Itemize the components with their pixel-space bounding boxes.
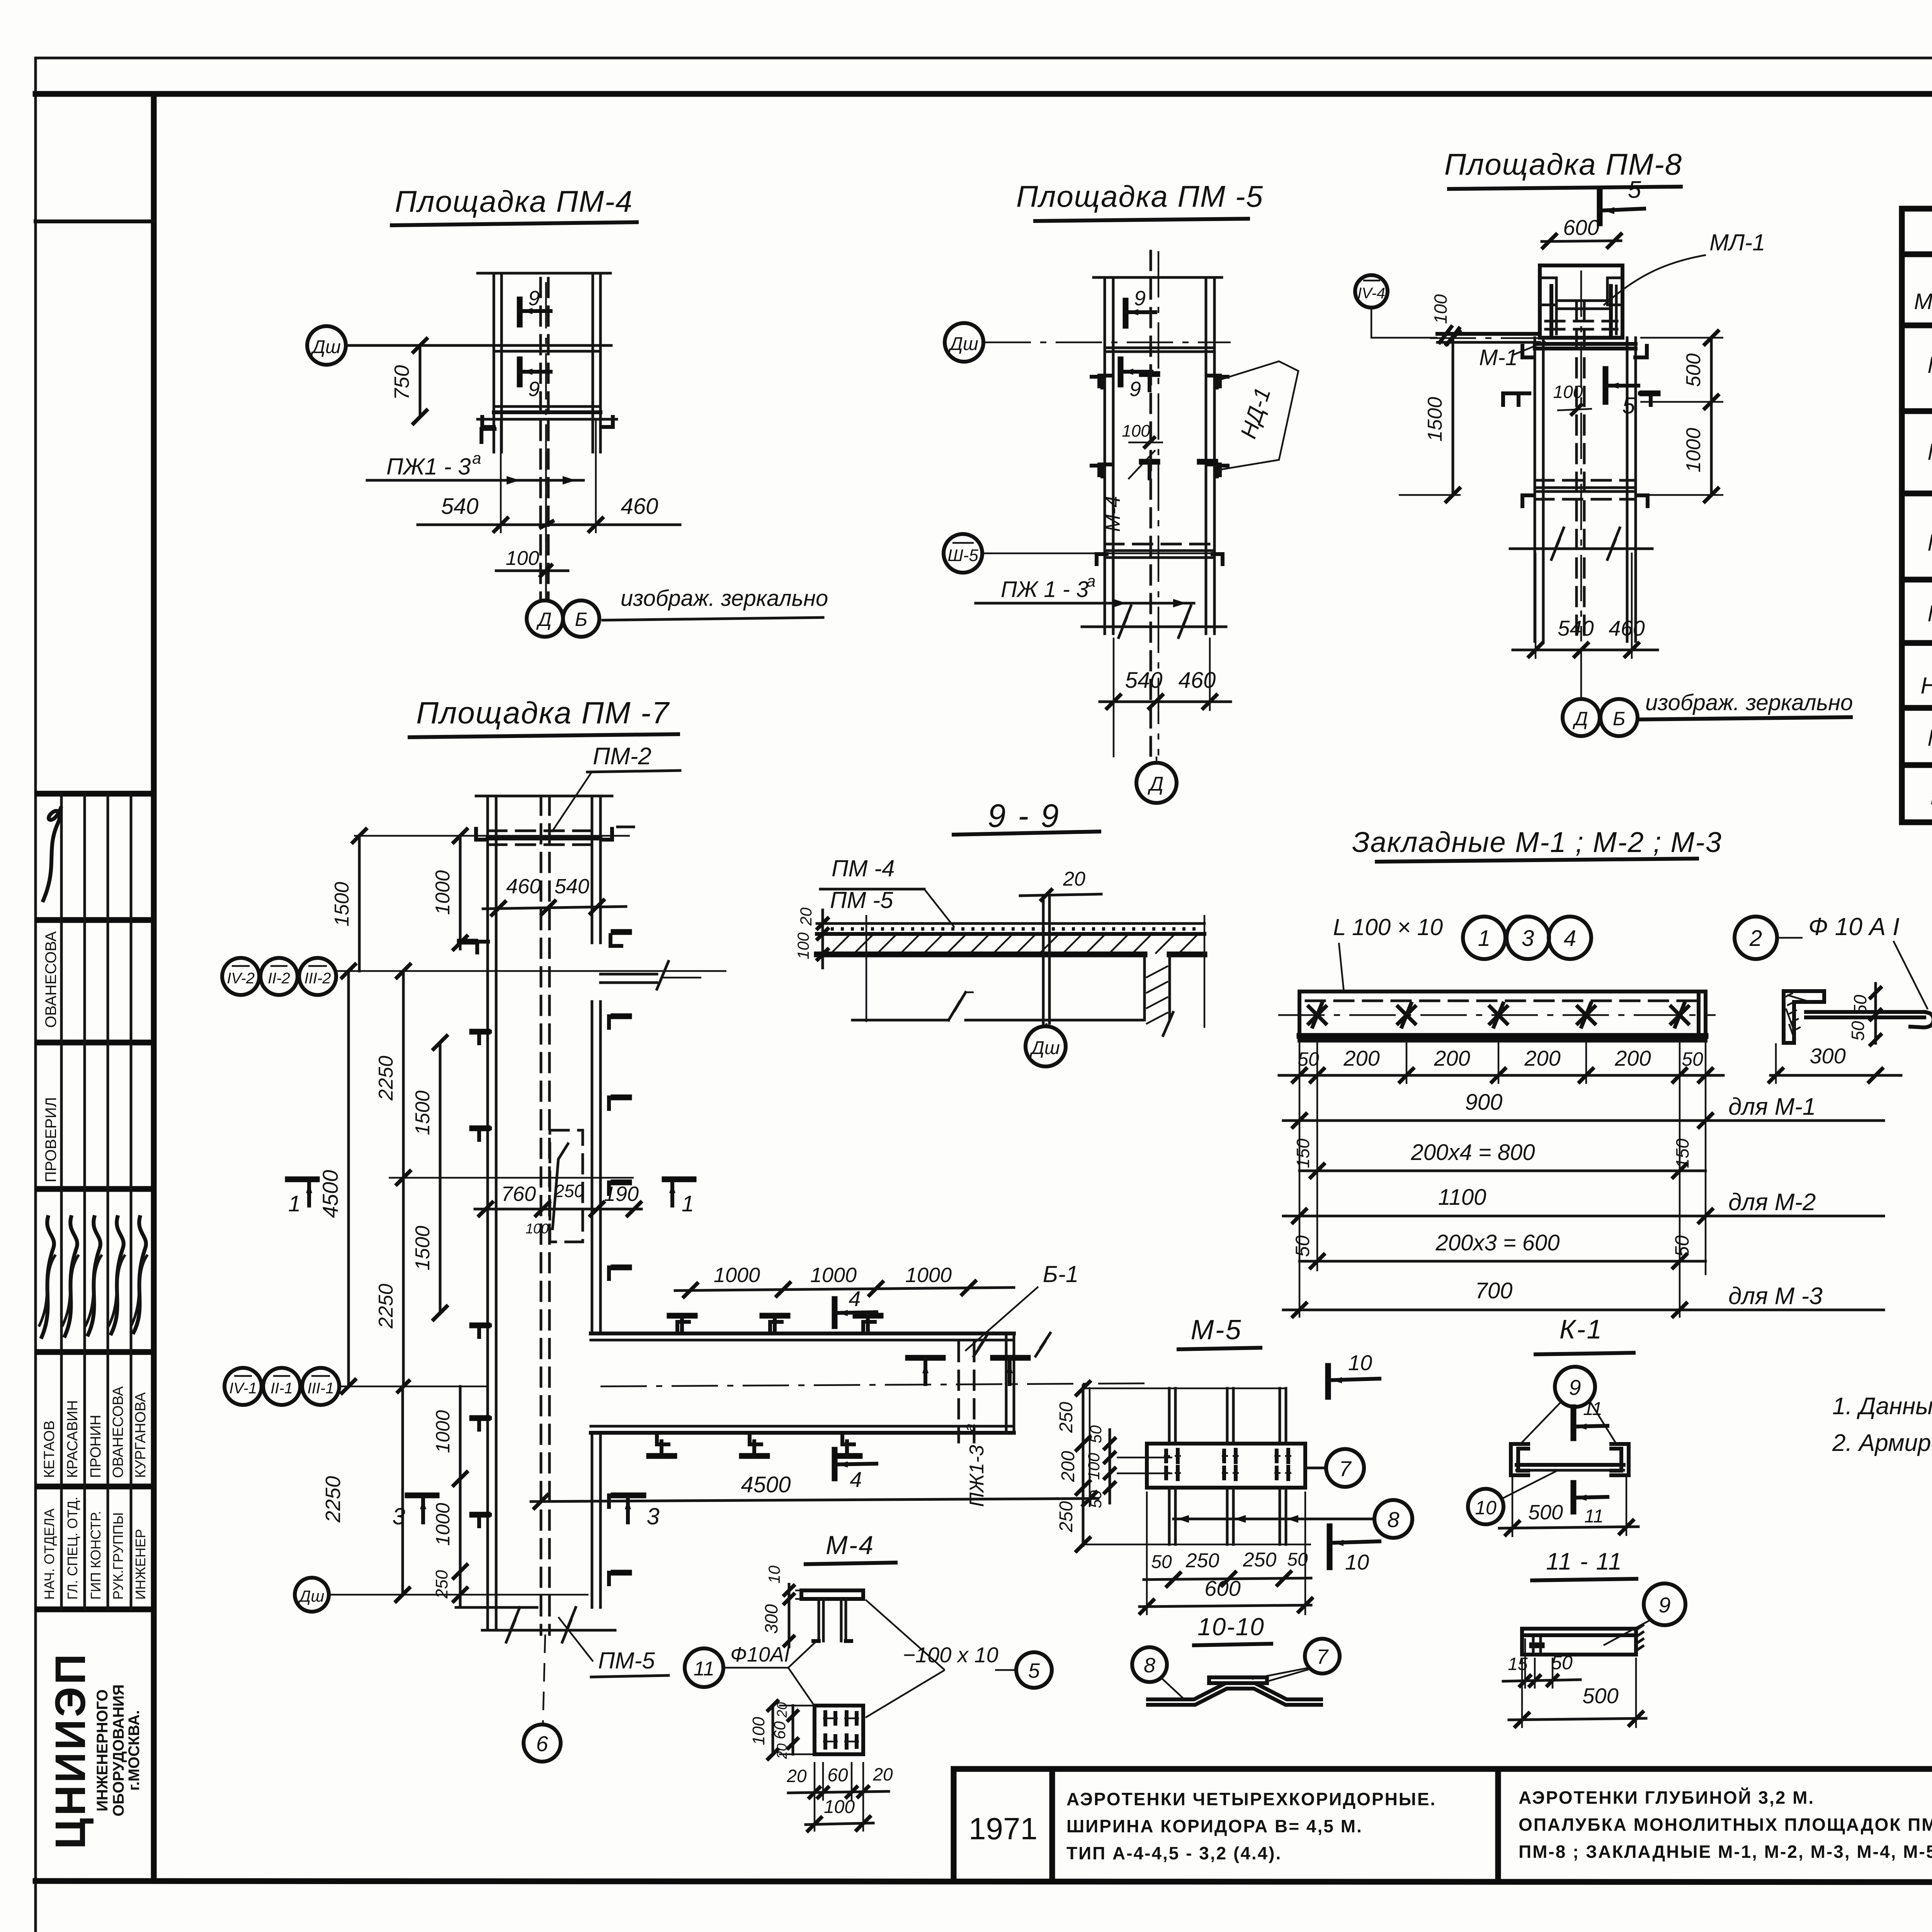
- PM-8 plate row: [1535, 342, 1636, 346]
- K-1 section mark 11 upper: [1571, 1407, 1577, 1438]
- stamp line 3847: [38, 1484, 154, 1490]
- svg-text:300: 300: [1810, 1044, 1845, 1068]
- PM-4 bottom platform edge: [478, 418, 617, 421]
- PM-7 rails mid: [486, 1175, 489, 1630]
- svg-text:50: 50: [1671, 1235, 1693, 1257]
- svg-text:1971: 1971: [969, 1811, 1037, 1846]
- spec table block separator lines: [1902, 408, 1932, 414]
- inner frame top line: [36, 91, 1932, 97]
- svg-text:Площадка ПМ-8: Площадка ПМ-8: [1444, 147, 1682, 181]
- svg-text:ПМ -5: ПМ -5: [830, 887, 893, 913]
- svg-text:ПМ-8 ; ЗАКЛАДНЫЕ М-1, М-2, М: ПМ-8 ; ЗАКЛАДНЫЕ М-1, М-2, М-3, М-4, М-5…: [1519, 1842, 1932, 1862]
- PM-8 mid platform rows: [1535, 479, 1636, 482]
- svg-text:50: 50: [1087, 1425, 1105, 1443]
- svg-text:460: 460: [621, 494, 658, 519]
- PM-7 dim 2250 lower: [402, 1178, 405, 1386]
- PM-7 circle 6: [524, 1725, 561, 1762]
- PM-5 title underline: [1035, 219, 1248, 221]
- svg-text:100: 100: [506, 547, 539, 570]
- svg-text:500: 500: [1682, 354, 1705, 387]
- PM-7 section mark 3 right: [614, 1493, 643, 1498]
- svg-text:600: 600: [1204, 1576, 1240, 1600]
- PM-7 opening dashed rect: [550, 1130, 583, 1242]
- PM-4 section mark 9 lower: [517, 359, 523, 384]
- svg-text:АЭРОТЕНКИ ЧЕТЫРЕХКОРИДОРНЫЕ: АЭРОТЕНКИ ЧЕТЫРЕХКОРИДОРНЫЕ.: [1066, 1789, 1436, 1809]
- PM-7 axis circle Dsh: [295, 1578, 329, 1612]
- PM-7 dims 1000 1000 250: [459, 1386, 462, 1607]
- svg-text:150: 150: [1293, 1138, 1313, 1168]
- svg-text:5: 5: [1622, 393, 1635, 418]
- 9-9 dim 20 100 left: [821, 910, 824, 968]
- svg-text:ПЖ1-3: ПЖ1-3: [966, 1445, 988, 1507]
- 9-9 title underline: [954, 832, 1099, 835]
- 9-9 right extension: [1204, 915, 1206, 1028]
- svg-text:КРАСАВИН: КРАСАВИН: [65, 1400, 81, 1478]
- svg-text:3: 3: [392, 1503, 405, 1529]
- PM-4 section mark 9 upper: [517, 299, 523, 325]
- PM-8 left rail: [1534, 338, 1536, 641]
- svg-text:1500: 1500: [331, 882, 353, 927]
- svg-text:250: 250: [1243, 1549, 1277, 1571]
- svg-text:М-4: М-4: [826, 1531, 874, 1560]
- M-5 circle 7: [1326, 1449, 1364, 1487]
- svg-text:К-1: К-1: [1930, 784, 1932, 810]
- PM-8 top box inner details: [1540, 278, 1556, 305]
- PM-8 top box outer: [1540, 265, 1622, 338]
- PM-4 dim 750 line: [419, 345, 422, 417]
- PM-7 dim 1000 upper: [459, 836, 462, 949]
- PM-8 dim 500 right: [1710, 338, 1713, 402]
- 11-11 right end hatch: [1636, 1625, 1643, 1630]
- PM-8 brackets row 1: [1522, 346, 1534, 357]
- PM-4 top edge line: [478, 272, 611, 275]
- svg-text:РУК.ГРУППЫ: РУК.ГРУППЫ: [110, 1512, 126, 1600]
- PM-7 bottom break: [482, 1629, 615, 1632]
- zakladnye position circle 1: [1463, 917, 1505, 959]
- svg-text:КУРГАНОВА: КУРГАНОВА: [133, 1392, 149, 1478]
- svg-text:МЛ-1: МЛ-1: [1709, 230, 1765, 255]
- svg-text:10: 10: [1348, 1350, 1372, 1375]
- svg-text:К-1: К-1: [1560, 1314, 1603, 1344]
- PM-7 center dash pair: [540, 796, 543, 1634]
- M-4 leader V: [723, 1667, 788, 1669]
- svg-text:ПМ-2: ПМ-2: [593, 743, 651, 770]
- PM-8 axis circle IV-4: [1355, 275, 1388, 308]
- svg-text:1500: 1500: [1424, 397, 1446, 442]
- stamp line 4165: [38, 1607, 154, 1612]
- PM-5 PZh arrow line: [976, 602, 1194, 605]
- svg-text:9: 9: [1134, 287, 1146, 310]
- M-4 dim 10 300 left: [788, 1584, 791, 1647]
- PM-8 title underline: [1449, 187, 1681, 189]
- svg-text:Б: Б: [1613, 708, 1626, 730]
- 9-9 label leader: [924, 889, 954, 927]
- svg-text:1. Данный лист рассматривать: 1. Данный лист рассматривать с листом КС…: [1832, 1393, 1932, 1420]
- K-1 circle 9: [1555, 1367, 1595, 1407]
- svg-text:750: 750: [390, 365, 413, 400]
- svg-text:ІV-4: ІV-4: [1357, 285, 1385, 302]
- M-5 top extension line: [1083, 1388, 1286, 1389]
- PM-7 dim 1500 upper: [358, 836, 361, 971]
- svg-text:5: 5: [1628, 177, 1641, 203]
- 9-9 slab second line: [817, 932, 1204, 936]
- PM-8 center dash pair: [1575, 301, 1578, 639]
- svg-text:100: 100: [1553, 382, 1583, 402]
- svg-text:ОПАЛУБКА МОНОЛИТНЫХ ПЛОЩАДОК: ОПАЛУБКА МОНОЛИТНЫХ ПЛОЩАДОК ПМ-4, ПМ-5,…: [1519, 1815, 1932, 1835]
- 9-9 left extension vertical: [866, 915, 867, 1022]
- svg-text:7: 7: [1339, 1456, 1352, 1481]
- zakladnye dim 200x3 line: [1299, 1260, 1706, 1263]
- PM-5 break line bottom: [1082, 626, 1226, 628]
- PM-7 top edge: [476, 795, 612, 798]
- zakladnye extension verticals: [1299, 1041, 1301, 1318]
- svg-text:М-1: М-1: [1927, 352, 1932, 378]
- svg-text:9: 9: [528, 378, 540, 401]
- M-5 section mark 10 bottom: [1327, 1526, 1333, 1567]
- svg-text:ИНЖЕНЕРНОГО: ИНЖЕНЕРНОГО: [94, 1689, 111, 1811]
- PM-7 brackets right rail: [609, 1016, 620, 1028]
- 10-10 plate piece 7: [1209, 1677, 1267, 1683]
- M-5 left dim line inner: [1109, 1430, 1111, 1503]
- svg-text:М-5: М-5: [1927, 725, 1932, 751]
- svg-text:100: 100: [749, 1717, 768, 1745]
- svg-text:Площадка ПМ-4: Площадка ПМ-4: [395, 184, 633, 218]
- PM-5 axis circle Dsh: [945, 323, 983, 362]
- svg-text:НД-1: НД-1: [1921, 673, 1932, 699]
- stamp top cell line: [36, 219, 154, 223]
- PM-4 axis circle B: [563, 600, 599, 637]
- stamp inner verticals: [60, 794, 63, 1609]
- svg-text:ТИП А-4-4,5 - 3,2 (4.4).: ТИП А-4-4,5 - 3,2 (4.4).: [1066, 1843, 1282, 1863]
- zakladnye dim 900 line: [1283, 1119, 1884, 1122]
- svg-text:11: 11: [1583, 1399, 1602, 1419]
- PM-7 right rail upper: [591, 796, 594, 943]
- K-1 channel right end: [1611, 1444, 1629, 1475]
- svg-text:200х3 = 600: 200х3 = 600: [1435, 1230, 1560, 1255]
- PM-4 corner bracket left: [481, 429, 495, 442]
- svg-text:ІV-2: ІV-2: [227, 970, 255, 987]
- 9-9 wall below: [1143, 954, 1146, 1020]
- PM-8 dim 1000 right: [1710, 402, 1713, 495]
- svg-text:Закладные М-1 ; М-2 ; М-3: Закладные М-1 ; М-2 ; М-3: [1352, 826, 1722, 858]
- PM-7 axis line Dsh: [329, 1594, 588, 1596]
- svg-text:ІІІ-2: ІІІ-2: [304, 970, 331, 987]
- zakladnye bar axis: [1278, 1014, 1716, 1016]
- 11-11 title underline: [1532, 1579, 1636, 1580]
- svg-text:50: 50: [1850, 995, 1870, 1015]
- title block divider 2: [1495, 1769, 1501, 1881]
- PM-5 top edge: [1094, 276, 1222, 279]
- PM-7 lower arm top edge: [591, 1332, 1014, 1335]
- PM-7 title underline: [410, 734, 678, 737]
- 9-9 axis circle Dsh: [1026, 1026, 1066, 1066]
- 11-11 top plate line: [1522, 1633, 1636, 1637]
- zakladnye L100 leader: [1339, 943, 1344, 992]
- PM-7 M-4 symbols at arm end: [908, 1355, 943, 1361]
- svg-text:3: 3: [646, 1503, 659, 1529]
- 11-11 circle 9: [1644, 1583, 1685, 1625]
- PM-5 leader to D circle: [1156, 757, 1158, 762]
- svg-text:6: 6: [536, 1731, 548, 1756]
- PM-4 dim 100 line: [496, 570, 568, 572]
- svg-text:1000: 1000: [810, 1264, 857, 1287]
- M-5 bottom dim line 1: [1144, 1578, 1311, 1580]
- PM-5 right rail: [1205, 277, 1207, 634]
- PM-5 left rail: [1104, 277, 1106, 634]
- svg-text:8: 8: [1144, 1654, 1155, 1677]
- PM-8 axis circle B: [1600, 699, 1638, 736]
- svg-text:250: 250: [1056, 1402, 1077, 1433]
- PM-7 dim 2250 left bottom: [401, 1386, 404, 1595]
- svg-text:2250: 2250: [375, 1056, 397, 1101]
- svg-text:ІV-1: ІV-1: [229, 1380, 257, 1397]
- zakladnye rod hook: [1910, 1012, 1932, 1027]
- svg-text:10: 10: [765, 1565, 783, 1583]
- svg-text:1000: 1000: [432, 870, 454, 915]
- stamp line 3499: [38, 1349, 154, 1355]
- PM-7 section mark 3 left: [408, 1493, 437, 1498]
- svg-text:ГИП КОНСТР.: ГИП КОНСТР.: [88, 1511, 104, 1600]
- 9-9 bottom line with break: [852, 1019, 949, 1022]
- svg-text:50: 50: [1151, 1552, 1172, 1572]
- svg-text:60: 60: [827, 1765, 848, 1786]
- svg-text:50: 50: [1298, 1048, 1319, 1070]
- svg-text:Площадка ПМ -5: Площадка ПМ -5: [1016, 179, 1264, 213]
- PM-8 IV-4 leader: [1371, 308, 1437, 338]
- svg-text:М-5: М-5: [1191, 1315, 1242, 1345]
- zakladnye angle bar plan: [1299, 992, 1706, 1041]
- PM-4 axis circle Dsh: [307, 326, 346, 365]
- svg-text:500: 500: [1528, 1501, 1563, 1524]
- svg-text:50: 50: [1087, 1490, 1105, 1508]
- svg-text:М-3: М-3: [1927, 530, 1932, 556]
- svg-text:4500: 4500: [741, 1472, 791, 1497]
- PM-7 section mark 1 right: [665, 1177, 694, 1182]
- svg-text:1000: 1000: [714, 1264, 760, 1287]
- PM-4 extension verticals: [500, 419, 502, 533]
- svg-text:4: 4: [1564, 926, 1576, 951]
- PM-7 axis circles IV-2 II-2 III-2: [222, 958, 259, 995]
- 11-11 dim 15 50: [1503, 1680, 1580, 1681]
- zakladnye anchor stars: [1309, 1003, 1326, 1027]
- M-5 section mark 10 top: [1325, 1366, 1331, 1397]
- svg-text:10: 10: [1475, 1497, 1497, 1519]
- svg-text:1000: 1000: [432, 1410, 454, 1453]
- svg-text:L 100 × 10: L 100 × 10: [1333, 914, 1443, 940]
- 9-9 slab hatch: [831, 935, 849, 954]
- svg-text:ПРОВЕРИЛ: ПРОВЕРИЛ: [43, 1097, 60, 1182]
- PM-7 section mark 1 left: [288, 1177, 317, 1182]
- svg-text:для М -3: для М -3: [1728, 1283, 1823, 1310]
- svg-text:200: 200: [1434, 1046, 1470, 1070]
- PM-7 upper brackets row: [477, 942, 488, 952]
- stamp line 2381: [38, 917, 154, 923]
- PM-8 section mark 5 top: [1597, 191, 1603, 223]
- svg-text:100: 100: [1122, 422, 1150, 440]
- zakladnye dim row 200s: [1279, 1074, 1723, 1077]
- svg-text:4: 4: [850, 1467, 862, 1492]
- 9-9 joint leader to Dsh: [1046, 1023, 1048, 1026]
- svg-text:2250: 2250: [321, 1476, 345, 1523]
- spec table title row line: [1902, 252, 1932, 257]
- PM-8 dim 1500 left: [1452, 338, 1454, 495]
- M-5 title underline: [1179, 1348, 1260, 1349]
- svg-text:50: 50: [1848, 1021, 1868, 1041]
- svg-text:1500: 1500: [412, 1226, 434, 1270]
- PM-8 break bottom: [1510, 548, 1652, 550]
- svg-text:9: 9: [1658, 1593, 1670, 1617]
- PM-4 right rail: [592, 273, 594, 452]
- svg-text:10-10: 10-10: [1197, 1613, 1265, 1641]
- 9-9 label divider line: [820, 888, 924, 891]
- svg-text:КЕТАОВ: КЕТАОВ: [41, 1420, 58, 1478]
- K-1 leaders from circle 9: [1519, 1402, 1561, 1445]
- svg-text:1000: 1000: [432, 1503, 454, 1546]
- svg-text:200: 200: [1343, 1046, 1379, 1070]
- PM-8 dim line 540 460: [1513, 649, 1658, 651]
- M-4 tee legs: [818, 1599, 820, 1641]
- 10-10 circle 8: [1132, 1647, 1167, 1682]
- svg-text:9: 9: [528, 287, 540, 310]
- M-4 tee plate: [801, 1590, 863, 1599]
- svg-text:11: 11: [694, 1658, 714, 1680]
- svg-text:Ф 10 А І: Ф 10 А І: [1808, 913, 1900, 940]
- PM-7 axis line level IV-1: [339, 1386, 488, 1388]
- PM-8 right ext lines: [1640, 337, 1723, 339]
- PM-4 axis circle D: [527, 600, 563, 637]
- svg-text:ОВАНЕСОВА: ОВАНЕСОВА: [110, 1386, 126, 1478]
- svg-text:ОВАНЕСОВА: ОВАНЕСОВА: [43, 931, 60, 1028]
- svg-text:1: 1: [1478, 926, 1490, 951]
- M-4 anchor square: [815, 1706, 863, 1754]
- svg-text:200: 200: [1524, 1046, 1560, 1070]
- svg-text:60: 60: [770, 1721, 789, 1739]
- M-5 plate: [1147, 1444, 1305, 1488]
- PM-7 section mark 4 lower: [832, 1450, 838, 1478]
- K-1 title underline: [1536, 1353, 1634, 1354]
- PM-7 axis tick line level 3: [389, 1177, 634, 1179]
- svg-text:изображ. зеркально: изображ. зеркально: [1645, 690, 1853, 715]
- K-1 extension verticals: [1512, 1476, 1514, 1537]
- svg-text:4: 4: [849, 1286, 861, 1311]
- PM-5 section mark 9 upper: [1123, 301, 1129, 326]
- svg-text:460: 460: [1609, 616, 1645, 640]
- svg-text:20: 20: [872, 1764, 893, 1784]
- PM-8 mid brackets: [1522, 495, 1533, 506]
- PM-7 arm end dashed strip: [957, 1342, 960, 1442]
- svg-text:1000: 1000: [905, 1264, 952, 1287]
- svg-text:150: 150: [1672, 1138, 1692, 1168]
- svg-text:3: 3: [1522, 926, 1534, 951]
- zakladnye position circle 2: [1735, 917, 1777, 959]
- spec table outer border: [1902, 209, 1932, 822]
- PM-5 axis line Dsh: [985, 342, 1231, 344]
- svg-text:460: 460: [506, 875, 541, 898]
- stamp signature scribble 1: [43, 808, 61, 900]
- PM-7 top axis tick line: [354, 835, 630, 837]
- zakladnye title underline: [1377, 859, 1697, 862]
- svg-text:540: 540: [554, 875, 589, 898]
- M-4 circle 11: [685, 1648, 723, 1687]
- bottom frame line: [36, 1881, 1932, 1883]
- svg-text:а: а: [472, 449, 481, 467]
- 10-10 bent bar piece 8: [1148, 1683, 1321, 1699]
- PM-5 bottom brackets: [1097, 554, 1107, 564]
- PM-4 rail cross line: [494, 350, 600, 353]
- svg-text:200х4 = 800: 200х4 = 800: [1411, 1140, 1535, 1165]
- PM-4 corner bracket right: [601, 417, 613, 427]
- svg-text:ІІ-2: ІІ-2: [268, 970, 290, 987]
- PM-5 axis circle Sh-5: [944, 534, 982, 573]
- M-5 leader to circle 8: [1173, 1518, 1374, 1520]
- K-1 dim line 500: [1499, 1527, 1638, 1528]
- svg-text:50: 50: [1551, 1652, 1573, 1673]
- svg-text:М-4: М-4: [1101, 496, 1124, 532]
- svg-text:ПЖ1 - 3: ПЖ1 - 3: [386, 454, 471, 480]
- zakladnye dim 200x4 line: [1299, 1170, 1706, 1172]
- svg-text:20: 20: [797, 907, 815, 926]
- svg-text:ПМ -4: ПМ -4: [832, 855, 895, 881]
- svg-text:АЭРОТЕНКИ ГЛУБИНОЙ 3,2 М.: АЭРОТЕНКИ ГЛУБИНОЙ 3,2 М.: [1519, 1787, 1815, 1808]
- svg-text:9: 9: [1129, 378, 1141, 401]
- M-4 title underline: [806, 1563, 896, 1564]
- stamp line 3077: [38, 1186, 154, 1192]
- svg-text:Марка: Марка: [1914, 289, 1932, 314]
- svg-text:50: 50: [1292, 1235, 1313, 1257]
- PM-4 dim 540 460 line: [418, 524, 680, 526]
- 9-9 slab top line: [817, 922, 1204, 925]
- M-5 leader to circle 7: [1305, 1467, 1326, 1469]
- PM-8 axis circle D: [1563, 699, 1600, 736]
- svg-text:Б: Б: [575, 609, 588, 630]
- stamp column right edge: [151, 94, 157, 1881]
- zakladnye dim 1100 line: [1283, 1215, 1884, 1218]
- svg-text:1100: 1100: [1438, 1185, 1486, 1210]
- PM-4 left rail: [493, 273, 495, 452]
- svg-text:600: 600: [1563, 215, 1599, 240]
- svg-text:190: 190: [604, 1182, 639, 1206]
- svg-text:М-2: М-2: [1927, 439, 1932, 465]
- PM-7 left rail upper: [486, 796, 489, 1175]
- PM-4 center axis dash-dot: [545, 282, 547, 602]
- svg-text:Дш: Дш: [310, 337, 341, 357]
- PM-5 section mark 9 lower: [1118, 359, 1124, 384]
- PM-8 ext verticals bottom: [1535, 553, 1537, 659]
- K-1 channel left end: [1511, 1444, 1528, 1475]
- svg-text:20: 20: [774, 1702, 790, 1718]
- svg-text:Дш: Дш: [948, 334, 978, 354]
- svg-text:г.МОСКВА.: г.МОСКВА.: [126, 1710, 143, 1791]
- svg-text:Дш: Дш: [1029, 1038, 1060, 1058]
- PM-7 lower arm bottom brackets: [657, 1433, 668, 1444]
- svg-text:760: 760: [501, 1182, 536, 1206]
- svg-text:Д: Д: [536, 609, 551, 630]
- svg-text:11: 11: [1584, 1506, 1604, 1527]
- svg-text:100: 100: [824, 1797, 855, 1817]
- svg-text:300: 300: [761, 1604, 781, 1634]
- svg-text:2. Армирование площадок см.: 2. Армирование площадок см. лист КС -37.: [1832, 1430, 1932, 1456]
- PM-5 bottom dashed rows: [1105, 543, 1214, 546]
- svg-text:ПРОНИН: ПРОНИН: [88, 1415, 104, 1478]
- PM-7 dim 2250 upper: [402, 971, 405, 1178]
- PM-4 axis line Dsh: [346, 344, 611, 347]
- PM-7 lower arm end verticals: [1005, 1333, 1008, 1433]
- svg-text:250: 250: [1185, 1549, 1219, 1572]
- svg-text:Д: Д: [1572, 708, 1588, 730]
- svg-text:700: 700: [1475, 1278, 1513, 1303]
- PM-7 brackets left rail: [479, 1032, 490, 1043]
- svg-text:ПМ-5: ПМ-5: [598, 1648, 655, 1673]
